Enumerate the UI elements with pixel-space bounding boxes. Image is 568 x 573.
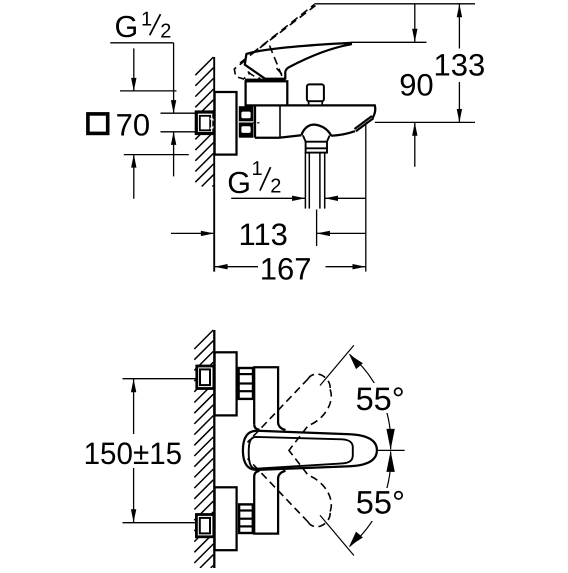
svg-text:55°: 55° bbox=[356, 485, 405, 521]
svg-text:G: G bbox=[227, 166, 251, 200]
svg-text:1: 1 bbox=[141, 9, 152, 31]
svg-text:2: 2 bbox=[270, 176, 281, 198]
svg-text:113: 113 bbox=[239, 217, 288, 252]
svg-text:G: G bbox=[115, 10, 139, 44]
svg-text:133: 133 bbox=[434, 47, 486, 82]
svg-text:90: 90 bbox=[399, 67, 433, 102]
svg-text:167: 167 bbox=[260, 252, 312, 287]
svg-text:150±15: 150±15 bbox=[84, 436, 183, 471]
svg-text:2: 2 bbox=[160, 20, 171, 42]
svg-text:1: 1 bbox=[252, 158, 263, 180]
svg-text:70: 70 bbox=[116, 108, 150, 143]
svg-text:55°: 55° bbox=[356, 381, 405, 417]
